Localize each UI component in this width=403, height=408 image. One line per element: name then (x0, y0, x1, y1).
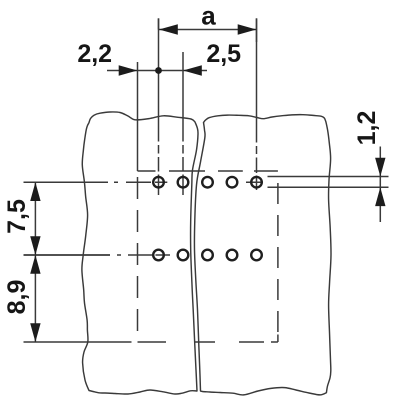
hole B5 (251, 250, 262, 261)
dashed component outline top edge (138, 170, 278, 172)
hole A3 (202, 177, 213, 188)
svg-text:8,9: 8,9 (3, 280, 31, 315)
extension line 2,2 left (to dashed outline) (137, 62, 139, 171)
hole A4 (227, 177, 238, 188)
holes: row 1 (153, 177, 262, 260)
left panel outline (82, 112, 198, 394)
hole B2 (178, 250, 189, 261)
arrow 1,2 top (points down) (375, 158, 385, 177)
dashed component outline bottom edge (138, 341, 278, 343)
dashed component outline right edge (277, 183, 279, 342)
hole row 1 center line (right panel part) (246, 181, 263, 183)
arrow 1,2 bottom (points up) (375, 187, 385, 206)
svg-text:2,2: 2,2 (77, 40, 112, 68)
hole A2 (178, 177, 189, 188)
arrow 2,5 (points left at hole column 2) (183, 65, 202, 75)
dashed component outline left edge (137, 171, 139, 342)
dimension a: extension line segment above (159, 18, 257, 42)
extension line between 7,5 and 8,9 (24, 254, 111, 256)
left vertical dimension line 7,5 / 8,9 (34, 182, 36, 342)
right vertical dimension line 1,2 (379, 147, 381, 223)
arrow 7,5 top (points up) (30, 182, 40, 201)
hole row 2 center line (24, 254, 171, 256)
hole A5 (251, 177, 262, 188)
svg-text:1,2: 1,2 (353, 111, 381, 146)
svg-text:2,5: 2,5 (206, 40, 241, 68)
hole column 1 center line (158, 18, 160, 195)
hole column 2 center line (182, 52, 184, 195)
dimension a line (159, 29, 257, 31)
arrow a right (238, 24, 257, 34)
arrow 2,2 (points right at outline edge) (119, 65, 138, 75)
hole A1 (153, 177, 164, 188)
dashed outline bottom-right corner piece (277, 335, 279, 343)
arrow 7,5 bottom (points down) (30, 236, 40, 255)
hole B3 (202, 250, 213, 261)
hole tangent line top (1,2 dimension) (268, 176, 389, 178)
svg-text:7,5: 7,5 (3, 199, 31, 234)
arrow a left (159, 24, 178, 34)
hole tangent line bottom (1,2 dimension) (268, 186, 389, 188)
hole B1 (153, 250, 164, 261)
arrow 8,9 bottom (points down) (30, 323, 40, 342)
hole row 1 center line (left part) (24, 181, 168, 183)
dot at hole column 1 on 2,2/2,5 dimension (155, 67, 162, 74)
extension line at 7,5 top (24, 181, 109, 183)
hole column 5 center line (256, 18, 258, 190)
right panel outline (194, 115, 331, 395)
dimension 2,2 / 2,5 line (107, 70, 207, 72)
svg-text:a: a (201, 1, 216, 31)
hole B4 (227, 250, 238, 261)
arrow 8,9 top (points up) (30, 255, 40, 274)
extension line 8,9 bottom (24, 341, 132, 343)
